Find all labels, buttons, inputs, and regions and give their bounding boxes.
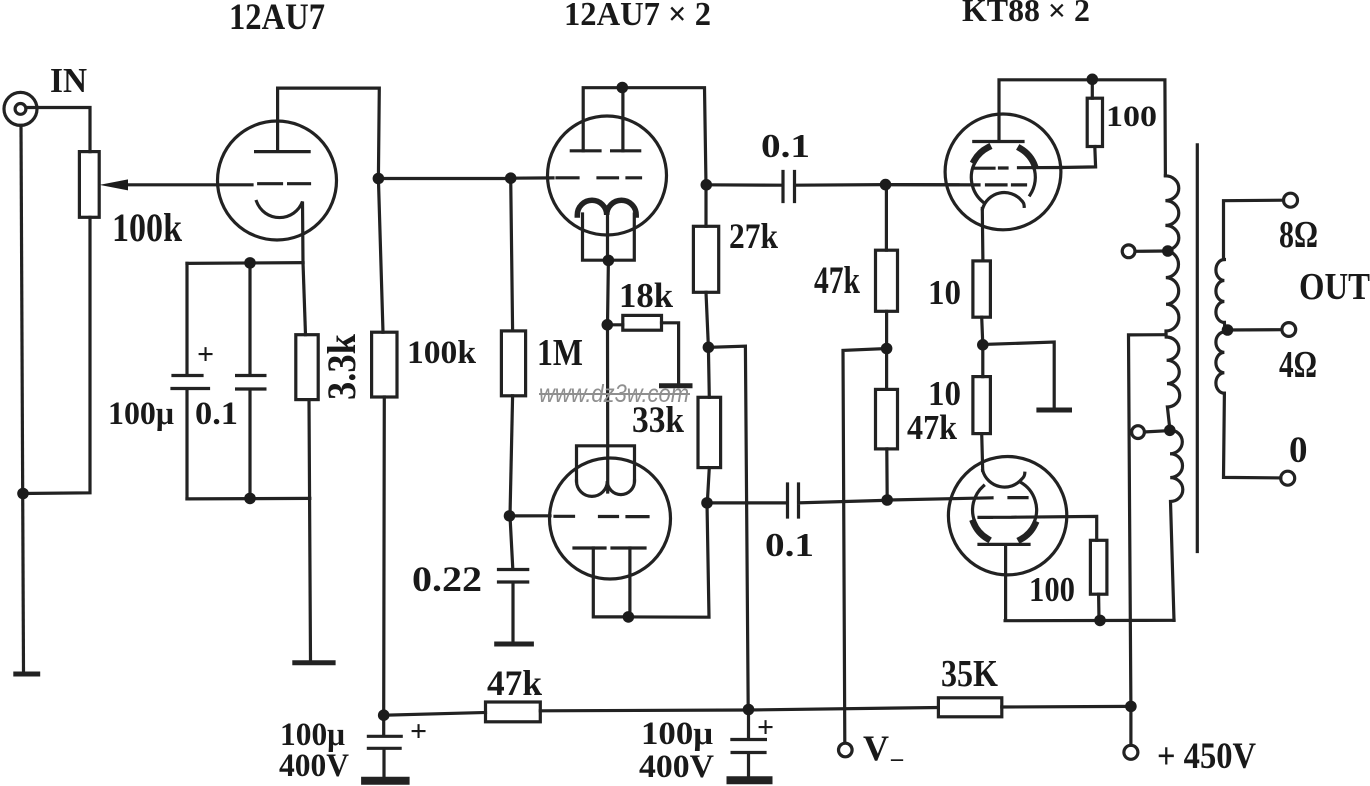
svg-text:100μ: 100μ [108, 396, 174, 432]
svg-text:0.1: 0.1 [765, 527, 814, 564]
svg-text:10: 10 [928, 273, 961, 312]
svg-text:+: + [197, 338, 214, 371]
svg-text:4Ω: 4Ω [1279, 344, 1317, 386]
svg-text:100μ: 100μ [641, 716, 713, 752]
svg-text:400V: 400V [279, 748, 349, 784]
svg-text:400V: 400V [639, 749, 714, 785]
svg-text:35K: 35K [941, 653, 998, 695]
svg-text:+ 450V: + 450V [1157, 736, 1256, 777]
svg-text:0: 0 [1289, 430, 1308, 471]
svg-text:+: + [757, 711, 774, 744]
svg-text:12AU7 × 2: 12AU7 × 2 [564, 0, 711, 33]
svg-text:100: 100 [1029, 570, 1075, 609]
svg-text:–: – [890, 746, 904, 772]
svg-text:18k: 18k [619, 276, 674, 315]
svg-text:OUT: OUT [1299, 266, 1370, 308]
svg-text:100k: 100k [407, 335, 477, 371]
svg-text:IN: IN [50, 61, 87, 100]
svg-text:8Ω: 8Ω [1279, 214, 1318, 256]
svg-text:27k: 27k [729, 216, 778, 256]
svg-text:47k: 47k [487, 663, 542, 703]
svg-text:12AU7: 12AU7 [229, 0, 325, 38]
svg-text:100: 100 [1106, 100, 1157, 133]
svg-text:KT88 × 2: KT88 × 2 [962, 0, 1090, 28]
svg-text:+: + [410, 715, 427, 748]
svg-text:0.22: 0.22 [412, 559, 482, 599]
svg-text:47k: 47k [907, 408, 957, 447]
svg-text:0.1: 0.1 [195, 396, 238, 432]
svg-text:3.3k: 3.3k [319, 333, 364, 400]
svg-text:1M: 1M [537, 332, 583, 374]
svg-text:V: V [863, 728, 889, 768]
svg-text:100k: 100k [112, 205, 183, 250]
svg-text:47k: 47k [814, 259, 860, 302]
svg-text:0.1: 0.1 [761, 128, 810, 165]
